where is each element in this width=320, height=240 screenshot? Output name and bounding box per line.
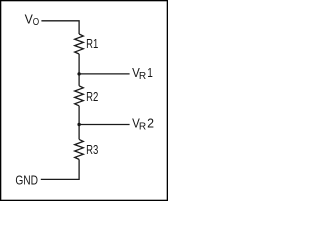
node VR2: [132, 115, 154, 132]
junction node VR1: [77, 72, 80, 75]
wire: [41, 21, 79, 34]
svg-text:1: 1: [147, 65, 153, 80]
svg-text:R: R: [139, 122, 146, 133]
svg-text:2: 2: [147, 115, 154, 130]
svg-text:R1: R1: [86, 36, 98, 51]
svg-text:R2: R2: [86, 89, 98, 104]
node VR1: [132, 65, 153, 82]
junction node VR2: [77, 123, 80, 126]
svg-text:GND: GND: [15, 172, 38, 187]
resistor R2: [75, 86, 99, 106]
svg-text:O: O: [33, 17, 40, 28]
wire: [79, 124, 130, 126]
node VO: [25, 12, 40, 28]
svg-text:R3: R3: [86, 142, 98, 157]
svg-text:R: R: [139, 71, 146, 82]
resistor R1: [75, 34, 99, 54]
wire: [41, 159, 79, 179]
wire: [78, 106, 80, 140]
wire: [79, 73, 130, 75]
wire: [78, 54, 80, 86]
resistor R3: [75, 139, 99, 159]
